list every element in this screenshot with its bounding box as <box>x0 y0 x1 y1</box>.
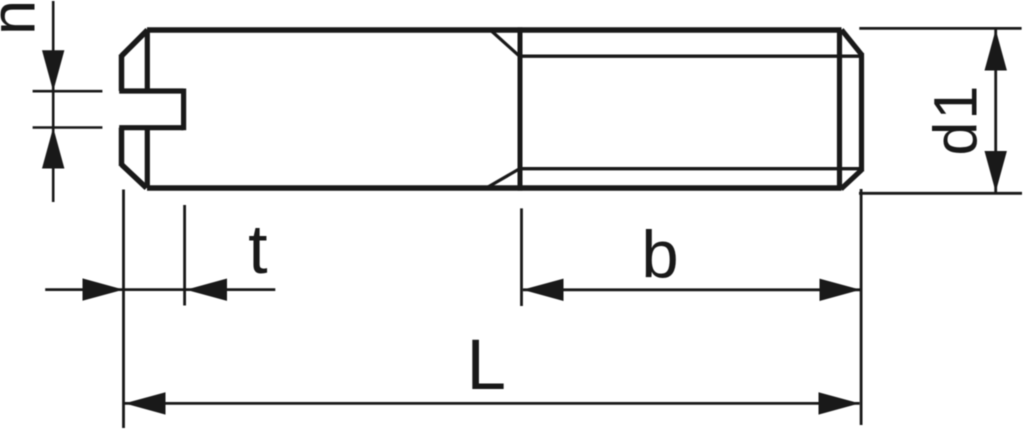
thread runout diagonal top <box>492 31 520 56</box>
L dimension line <box>125 402 860 405</box>
L arrow pointing left <box>125 392 166 414</box>
thread start vertical line <box>518 27 523 190</box>
d1 extension line bottom <box>859 192 1022 195</box>
b arrow pointing right <box>820 279 861 301</box>
t arrow pointing left <box>186 279 227 301</box>
head left edge lower <box>119 128 125 166</box>
d1 arrow up <box>985 30 1007 71</box>
svg-text:L: L <box>466 326 506 405</box>
b dimension line <box>523 288 860 291</box>
end bottom chamfer <box>841 170 862 189</box>
n extension line bottom <box>33 126 103 129</box>
slot top edge <box>119 88 183 93</box>
svg-text:b: b <box>641 217 678 292</box>
n dimension line vertical <box>52 1 55 202</box>
head bottom chamfer <box>122 165 147 189</box>
thread minor diameter line bottom <box>520 167 861 170</box>
t arrow pointing right <box>83 278 124 300</box>
n extension line top <box>33 90 103 93</box>
slot bottom edge <box>119 125 183 130</box>
b/L right extension line <box>860 189 863 425</box>
t dimension line with outside tails <box>45 288 275 291</box>
b arrow pointing left <box>523 279 564 301</box>
n arrow down <box>42 50 64 91</box>
n arrow up <box>42 128 64 169</box>
head chamfer circle line upper <box>145 30 150 91</box>
t/L left extension line <box>122 190 125 429</box>
svg-text:n: n <box>0 0 48 35</box>
d1 extension line top <box>859 27 1021 30</box>
screw body bottom edge <box>147 185 842 191</box>
end top chamfer <box>842 30 862 55</box>
end right edge <box>859 53 864 172</box>
screw body top edge <box>147 27 842 33</box>
d1 arrow down <box>985 151 1007 192</box>
L arrow pointing right <box>819 392 860 414</box>
thread minor diameter line top <box>520 55 860 58</box>
t right extension line <box>183 205 186 306</box>
d1 dimension line <box>994 30 997 193</box>
b left extension line <box>520 208 523 306</box>
svg-text:t: t <box>248 210 267 288</box>
head left edge upper <box>119 55 125 92</box>
end chamfer circle vertical <box>837 30 842 188</box>
slot right edge (depth) <box>181 89 186 131</box>
head top chamfer <box>122 30 148 56</box>
svg-text:d1: d1 <box>922 84 990 156</box>
thread runout diagonal bottom <box>488 169 520 187</box>
head chamfer circle line lower <box>145 128 150 188</box>
